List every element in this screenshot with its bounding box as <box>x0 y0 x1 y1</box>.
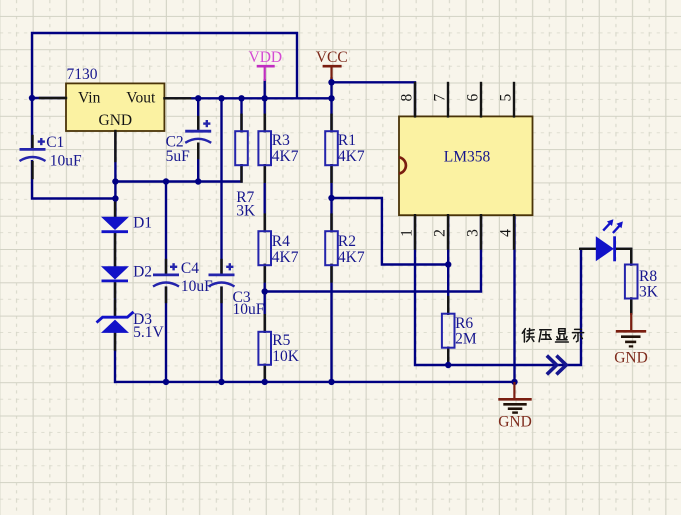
svg-text:LM358: LM358 <box>444 148 491 165</box>
svg-text:4K7: 4K7 <box>272 249 299 266</box>
node Vin junction <box>29 95 35 101</box>
svg-text:6: 6 <box>464 93 481 101</box>
node R5-gnd junction <box>262 379 268 385</box>
svg-text:R6: R6 <box>455 315 473 332</box>
node GND7130-R7rail junction <box>112 178 118 184</box>
node C1-GND junction <box>112 195 118 201</box>
pin 1 of LM358 <box>398 215 415 248</box>
svg-text:GND: GND <box>614 349 648 366</box>
capacitor C4 <box>153 260 213 295</box>
svg-text:R3: R3 <box>272 132 290 149</box>
diode D1 <box>101 215 152 232</box>
svg-text:R5: R5 <box>272 332 290 349</box>
svg-text:VCC: VCC <box>316 49 348 66</box>
svg-text:4K7: 4K7 <box>338 249 365 266</box>
pin 8 of LM358 <box>398 83 415 116</box>
node VCC-pin8 junction <box>328 79 334 85</box>
svg-text:5: 5 <box>497 93 514 101</box>
wire R6 to output node <box>447 348 449 365</box>
wire VCC to pin 8 <box>332 82 416 116</box>
node pin2-R6 junction <box>445 261 451 267</box>
LED DS1 <box>596 219 623 261</box>
wire R1 to R2 <box>330 165 332 231</box>
pin GND of 7130 <box>114 131 116 161</box>
svg-text:10K: 10K <box>272 348 300 365</box>
wire R4R5 node to pin 3 <box>265 215 481 291</box>
ground symbol at R8 GND <box>614 313 648 366</box>
wire VCC stem to R1 <box>330 79 332 132</box>
svg-text:10uF: 10uF <box>233 301 265 318</box>
node pin4-gnd junction <box>511 379 517 385</box>
svg-text:3: 3 <box>464 229 481 237</box>
regulator U 7130 <box>66 66 164 131</box>
power VCC <box>316 49 348 79</box>
node R4-R5 junction <box>262 288 268 294</box>
pin 6 of LM358 <box>464 83 481 116</box>
resistor R5 <box>258 332 299 365</box>
wire top-left rail loop <box>32 33 297 149</box>
svg-text:5uF: 5uF <box>166 148 191 165</box>
svg-text:D1: D1 <box>133 215 152 232</box>
wire LED to R8 <box>615 249 632 265</box>
resistor R2 <box>325 231 365 266</box>
pin 3 of LM358 <box>464 215 481 248</box>
node C4-top junction <box>163 178 169 184</box>
svg-text:Vout: Vout <box>126 89 156 106</box>
wire R4 to R5 <box>264 265 266 332</box>
node VCC-rail junction <box>328 95 334 101</box>
resistor R3 <box>258 131 298 165</box>
pin 2 of LM358 <box>431 215 448 248</box>
svg-text:R2: R2 <box>338 233 356 250</box>
svg-text:7: 7 <box>431 93 448 101</box>
svg-text:C1: C1 <box>46 134 64 151</box>
svg-text:3K: 3K <box>639 284 659 301</box>
node C2-top junction <box>195 95 201 101</box>
power VDD <box>249 49 283 81</box>
node C3-top junction <box>218 95 224 101</box>
capacitor C1 <box>20 134 83 169</box>
wire C2 branch <box>197 98 199 181</box>
svg-text:4K7: 4K7 <box>272 148 299 165</box>
svg-text:10uF: 10uF <box>181 278 213 295</box>
svg-text:R4: R4 <box>272 233 290 250</box>
wire pin 2 to R6 <box>447 215 449 314</box>
capacitor C3 <box>209 263 265 318</box>
wire ground rail <box>115 381 514 383</box>
svg-text:GND: GND <box>99 112 133 129</box>
node VDD-R3 junction <box>262 95 268 101</box>
wire pin 4 to ground rail <box>513 215 515 382</box>
wire R7 branch <box>115 98 241 181</box>
svg-text:Vin: Vin <box>78 89 101 106</box>
resistor R8 <box>625 265 659 301</box>
svg-text:2: 2 <box>431 229 448 237</box>
wire left rail below C1 to GND node <box>32 161 115 198</box>
wire Vin from left rail <box>32 97 66 99</box>
wire R2 to ground rail <box>330 265 332 382</box>
wire VDD stem to R3 <box>264 81 266 132</box>
pin Vin of 7130 <box>40 97 66 99</box>
svg-text:VDD: VDD <box>249 49 283 66</box>
label 低压显示 (low voltage display) <box>522 329 583 343</box>
node C2-bottom junction <box>195 178 201 184</box>
svg-text:7130: 7130 <box>67 66 98 83</box>
wire R1R2 node to pin 2 <box>332 198 449 265</box>
node R2-gnd junction <box>328 379 334 385</box>
node C4-gnd junction <box>163 379 169 385</box>
wire D1 to D2 <box>114 232 116 267</box>
svg-text:5.1V: 5.1V <box>133 324 164 341</box>
resistor R7 <box>235 131 256 219</box>
diode D2 <box>101 264 152 281</box>
wire R3 to R4 <box>264 165 266 231</box>
node R7-top junction <box>238 95 244 101</box>
pin 5 of LM358 <box>497 83 514 116</box>
svg-text:3K: 3K <box>236 203 256 220</box>
pin leads (black) of resistors/caps/diodes <box>33 115 632 381</box>
svg-text:C4: C4 <box>181 260 199 277</box>
wire D3 to ground rail <box>114 333 116 382</box>
resistor R4 <box>258 231 298 266</box>
resistor R6 <box>442 314 477 348</box>
svg-text:4K7: 4K7 <box>338 148 365 165</box>
wire C4 branch <box>165 182 167 382</box>
wire Vout rail <box>164 97 331 99</box>
node R1-R2 junction <box>328 195 334 201</box>
svg-text:10uF: 10uF <box>50 152 82 169</box>
pin 7 of LM358 <box>431 83 448 116</box>
svg-text:4: 4 <box>497 229 514 237</box>
svg-text:D2: D2 <box>133 264 152 281</box>
svg-text:R8: R8 <box>639 268 657 285</box>
zener diode D3 5.1V <box>97 311 165 341</box>
svg-text:R1: R1 <box>338 132 356 149</box>
svg-text:GND: GND <box>498 414 532 431</box>
bus-entry arrow on output wire <box>547 356 566 375</box>
resistor R1 <box>325 131 365 165</box>
wire 7130 GND pin down to D1 <box>114 131 116 217</box>
capacitor C2 <box>166 120 212 165</box>
svg-text:8: 8 <box>398 93 415 101</box>
svg-text:2M: 2M <box>455 331 477 348</box>
wire C3 branch <box>220 98 222 382</box>
node R6-out junction <box>445 362 451 368</box>
ground symbol main GND <box>498 382 532 431</box>
svg-text:1: 1 <box>398 229 415 237</box>
wire D2 to D3 <box>114 281 116 317</box>
pin Vout of 7130 <box>164 97 190 99</box>
pin 4 of LM358 <box>497 215 514 248</box>
wire R5 to ground rail <box>264 365 266 382</box>
wire pin 1 output to LED <box>415 215 596 365</box>
op-amp U LM358 <box>399 116 533 215</box>
wire R8 to GND <box>630 299 632 314</box>
node C3-gnd junction <box>218 379 224 385</box>
